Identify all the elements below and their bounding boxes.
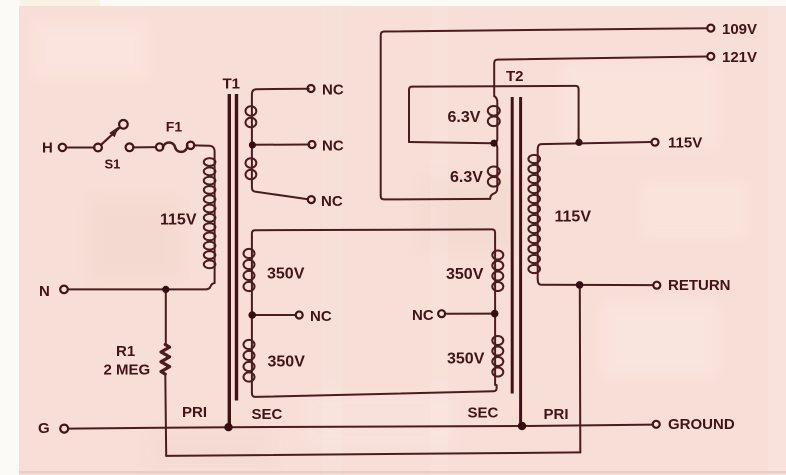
transformer T1 secondary 350V/350V windings	[244, 237, 255, 393]
switch S1 left contact	[94, 144, 102, 152]
svg-text:R1: R1	[116, 343, 135, 360]
svg-text:6.3V: 6.3V	[450, 169, 483, 186]
svg-text:T2: T2	[506, 68, 524, 85]
wire T2 115V top lead to 115V terminal	[538, 142, 652, 150]
svg-text:121V: 121V	[722, 49, 757, 66]
svg-text:PRI: PRI	[182, 404, 207, 421]
svg-text:350V: 350V	[447, 350, 485, 367]
svg-text:GROUND: GROUND	[668, 416, 735, 433]
wire bottom bus to RETURN node	[166, 452, 580, 456]
wire T1 350V center tap to NC	[252, 314, 296, 316]
transformer T2 secondary 350V/350V windings	[492, 237, 503, 385]
svg-text:350V: 350V	[446, 266, 484, 283]
wire bottom of 350V loop T1 to T2	[252, 385, 497, 397]
wire S1 to fuse F1	[133, 146, 156, 148]
wire R1 bottom down to bottom bus	[164, 374, 167, 456]
svg-text:NC: NC	[322, 138, 344, 155]
svg-text:PRI: PRI	[544, 406, 569, 423]
svg-text:115V: 115V	[668, 135, 702, 152]
transformer T2 core	[512, 97, 520, 426]
node 115V junction	[575, 139, 582, 146]
svg-text:S1: S1	[105, 157, 121, 172]
switch S1	[101, 128, 120, 145]
wire N terminal to T1 primary bottom	[68, 283, 215, 289]
wire inner loop left side up	[409, 87, 412, 142]
wire T2 115V bottom lead to RETURN terminal	[538, 279, 654, 285]
svg-text:F1: F1	[166, 119, 183, 135]
terminal 109V	[707, 25, 714, 32]
svg-text:115V: 115V	[160, 212, 197, 229]
terminal NC top 2	[309, 141, 316, 148]
wire ground bus T2 to GROUND terminal	[522, 425, 653, 426]
wire T2 350V center tap to NC	[445, 313, 491, 315]
terminal NC T1 350V	[296, 312, 303, 319]
transformer T2 primary winding 115V	[528, 150, 540, 279]
svg-text:115V: 115V	[555, 209, 592, 226]
resistor R1 2 MEG	[161, 345, 170, 375]
switch S1 arm tip contact	[119, 120, 128, 129]
svg-text:H: H	[42, 140, 53, 157]
wire G terminal to T1 core ground node	[68, 427, 228, 428]
fuse F1 left terminal	[156, 143, 163, 150]
svg-text:NC: NC	[310, 308, 332, 325]
svg-text:RETURN: RETURN	[668, 277, 731, 294]
transformer T1 core	[229, 94, 236, 427]
node T1 core to ground junction	[224, 423, 232, 431]
terminal 121V	[707, 53, 714, 60]
svg-text:N: N	[39, 283, 50, 300]
svg-text:T1: T1	[223, 76, 241, 93]
node N / R1 top junction	[162, 286, 169, 293]
svg-text:G: G	[38, 420, 50, 437]
transformer T1 primary winding 115V	[204, 158, 216, 283]
svg-text:6.3V: 6.3V	[448, 109, 481, 126]
svg-text:2 MEG: 2 MEG	[104, 362, 151, 379]
terminal circles	[59, 25, 715, 433]
terminal 115V	[652, 139, 659, 146]
wire T1 top secondary center tap to NC	[252, 144, 309, 146]
wire 121V line down to T2 6.3V top	[494, 57, 707, 97]
wire 6.3V bottom left and up to 109V line	[381, 28, 708, 199]
svg-text:SEC: SEC	[468, 405, 499, 422]
switch S1 right contact	[126, 143, 134, 151]
wire top of 350V loop T1 to T2	[252, 229, 495, 237]
svg-text:350V: 350V	[267, 266, 305, 283]
fuse F1 right terminal	[187, 142, 194, 149]
fuse F1	[163, 142, 187, 151]
terminal G	[60, 425, 68, 433]
node T2 core to ground junction	[518, 422, 526, 430]
svg-text:NC: NC	[412, 307, 434, 324]
terminal NC top 3	[308, 196, 315, 203]
terminal N	[60, 286, 68, 294]
svg-text:109V: 109V	[722, 21, 757, 38]
wire ground bus T1 to T2	[229, 426, 523, 427]
wire H terminal to switch S1	[66, 147, 95, 149]
terminal NC T2 350V	[438, 310, 445, 317]
node T2 350V center tap	[491, 310, 499, 318]
transformer T1 secondary (top, NC)	[246, 89, 309, 200]
transformer T2 tertiary 6.3V/6.3V windings	[488, 96, 500, 199]
svg-text:350V: 350V	[268, 354, 306, 371]
wire inner loop right side down to 115V node	[578, 89, 580, 140]
terminal GROUND	[653, 421, 660, 428]
node T1 top secondary center tap	[249, 141, 256, 148]
terminal NC top 1	[308, 85, 315, 92]
svg-text:NC: NC	[321, 193, 343, 210]
wire 6.3V center tap to inner loop left side	[409, 142, 491, 143]
terminal H	[59, 144, 66, 151]
wire F1 to T1 primary top	[194, 145, 215, 161]
terminal RETURN	[653, 282, 660, 289]
svg-text:SEC: SEC	[252, 406, 283, 423]
svg-text:NC: NC	[322, 82, 344, 99]
node T2 6.3V center tap	[490, 140, 497, 147]
node T1 350V center tap	[248, 311, 256, 319]
wire vertical up to RETURN junction	[579, 285, 582, 452]
wire R1 branch from N node down	[165, 289, 167, 344]
wire inner loop top	[412, 86, 578, 89]
node RETURN junction	[576, 281, 584, 289]
